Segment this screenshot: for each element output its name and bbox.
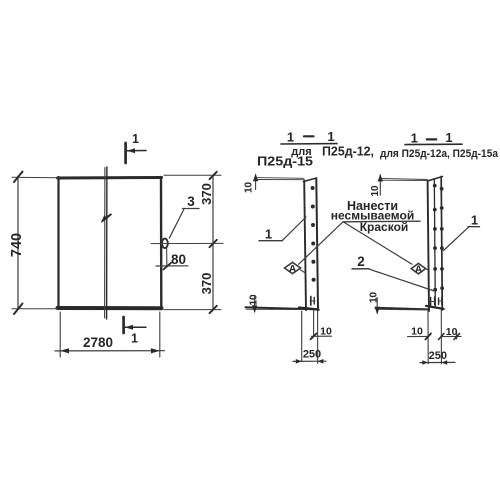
hole centerline: [151, 242, 223, 244]
svg-text:1: 1: [287, 130, 294, 145]
panel outline left edge: [57, 177, 59, 309]
hole (small circle) on right edge: [162, 239, 168, 248]
svg-text:250: 250: [303, 349, 321, 361]
section B anchor dots middle column: [433, 184, 437, 292]
section A bottom-left dimension 10: [254, 297, 256, 312]
section B plate middle line: [434, 180, 435, 307]
dimension 2780 arrow right: [151, 348, 160, 353]
svg-text:10: 10: [320, 325, 332, 337]
svg-text:Краской: Краской: [360, 220, 409, 234]
section B plate top edge: [427, 177, 442, 182]
joint arrow mark: [103, 214, 111, 220]
section A plate right line: [316, 179, 318, 311]
svg-text:740: 740: [9, 233, 25, 257]
section B dimension 250: [420, 361, 455, 363]
section B plate right line: [441, 177, 442, 311]
svg-text:10: 10: [370, 185, 381, 197]
section B bottom anchor dashes: [430, 298, 432, 306]
paint mark diamond A (section A): [285, 262, 301, 273]
section A plate top edge: [304, 178, 317, 182]
section B bottom-left dimension 10: [376, 298, 378, 314]
paint note leader to diamond B: [344, 222, 413, 264]
svg-text:10: 10: [411, 325, 423, 337]
section A dimension 250: [293, 360, 326, 362]
dimension 740 extension lines: [12, 176, 58, 179]
svg-text:П25д-12,: П25д-12,: [322, 145, 374, 159]
section A bottom anchor dashes: [310, 297, 312, 306]
svg-text:2780: 2780: [83, 335, 113, 350]
svg-text:для П25д-12а, П25д-15а: для П25д-12а, П25д-15а: [380, 148, 499, 160]
svg-text:1: 1: [445, 130, 452, 145]
section mark 1 top: [124, 143, 127, 163]
section A plate left line: [304, 181, 306, 310]
svg-text:П25д-15: П25д-15: [257, 155, 313, 169]
dimension 740 tick top: [14, 172, 23, 183]
section B dimension 10 right: [441, 335, 461, 337]
section A plate bottom edge: [299, 308, 319, 310]
svg-text:10: 10: [446, 326, 458, 338]
section B dimension 10 left: [408, 335, 429, 337]
svg-text:1: 1: [471, 213, 478, 228]
dimension 2780 line: [55, 350, 165, 352]
dimension 80 line: [166, 248, 168, 266]
panel outline right edge: [160, 177, 163, 309]
dimension 2780 extension lines: [59, 312, 61, 357]
section A anchor dots: [311, 186, 316, 282]
svg-text:10: 10: [244, 181, 255, 193]
section A dimension 10 bottom: [312, 335, 332, 337]
svg-text:1: 1: [131, 332, 138, 346]
svg-text:А: А: [289, 263, 297, 275]
dimension 740 line: [17, 176, 19, 310]
svg-text:А: А: [415, 264, 423, 276]
section B anchor dots right column: [440, 187, 444, 290]
section A lower extension lines: [301, 311, 303, 362]
section B plate left line: [428, 181, 429, 311]
svg-text:1: 1: [265, 227, 272, 242]
section mark 1 bottom: [122, 317, 125, 333]
svg-text:370: 370: [199, 183, 214, 205]
svg-text:1: 1: [132, 132, 139, 146]
section A top extension double line: [256, 177, 305, 180]
dimension 370 ticks: [210, 172, 217, 179]
svg-text:80: 80: [171, 252, 186, 267]
dimension 370 line: [212, 176, 214, 311]
svg-text:2: 2: [357, 254, 365, 269]
svg-text:1: 1: [327, 129, 334, 144]
section B top dimension 10: [379, 175, 381, 195]
svg-text:3: 3: [187, 194, 195, 209]
panel outline top edge: [58, 176, 162, 180]
section A bottom flange line: [246, 307, 319, 309]
dimension 740 tick bottom: [14, 304, 23, 315]
section B bottom flange line: [376, 308, 429, 310]
dimension 370 extension lines: [164, 174, 221, 176]
paint note leader to diamond A: [299, 222, 343, 264]
panel joint line (double): [104, 168, 106, 319]
svg-text:370: 370: [199, 273, 214, 295]
dimension 2780 arrow left: [60, 348, 69, 353]
section B plate bottom edge: [426, 306, 444, 309]
paint mark diamond A (section B): [411, 263, 425, 274]
svg-text:250: 250: [429, 350, 447, 362]
section A top dimension 10: [255, 175, 257, 190]
panel outline bottom edge: [58, 306, 162, 310]
section B lower extension lines: [427, 311, 429, 364]
section B top extension double line: [380, 178, 427, 179]
svg-text:1: 1: [411, 131, 418, 146]
svg-text:10: 10: [249, 294, 260, 306]
svg-text:10: 10: [369, 291, 380, 303]
